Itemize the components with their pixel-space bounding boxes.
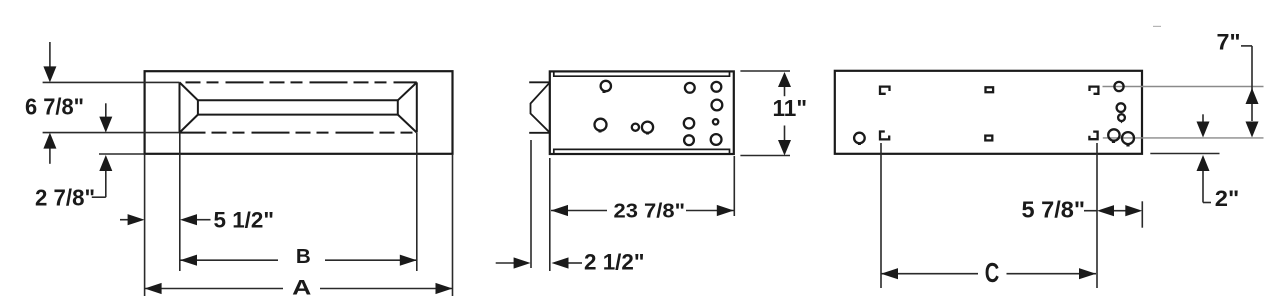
dim 5 7/8 double arrow xyxy=(1112,210,1127,212)
hole (left, lower) xyxy=(595,119,607,131)
extension line recess right edge down xyxy=(416,133,418,271)
recess inner band top xyxy=(198,99,398,101)
extension line plate bottom, left xyxy=(99,153,145,155)
bracket slot top-left (open bottom-right) xyxy=(880,87,890,94)
gray reference line through bottom keyholes xyxy=(1103,137,1264,139)
small circle right column xyxy=(1117,103,1126,112)
left bracket chevron outline xyxy=(531,83,550,133)
svg-text:B: B xyxy=(296,245,311,268)
svg-text:23 7/8": 23 7/8" xyxy=(614,199,686,222)
dim 6 7/8 top arrow xyxy=(49,42,51,164)
dim 23 7/8 right arrow xyxy=(717,205,734,216)
dim 2 7/8 bottom arrow xyxy=(99,155,112,171)
hole (top-left area) xyxy=(601,81,611,91)
dim 11in up arrow xyxy=(778,72,791,87)
slot bottom-middle xyxy=(985,136,992,141)
slot top-middle xyxy=(986,87,994,92)
bracket slot top-right (open bottom-left) xyxy=(1090,87,1099,94)
dim B right arrow xyxy=(400,255,417,266)
svg-text:7": 7" xyxy=(1217,29,1241,54)
mid view extension verticals xyxy=(531,140,734,271)
small hole right cluster r3c2 xyxy=(713,119,718,124)
svg-text:2": 2" xyxy=(1215,186,1240,211)
hole keyhole nub xyxy=(603,92,606,94)
right view extension verticals xyxy=(881,143,1142,288)
dim 7in down arrow xyxy=(1246,122,1259,138)
dim B line xyxy=(180,259,417,261)
extension line plate right edge down xyxy=(452,154,454,296)
gray reference line through top keyholes xyxy=(1103,86,1264,88)
recess top edge (dash-dot) xyxy=(180,81,417,83)
outer rectangle xyxy=(835,71,1142,154)
dim A line xyxy=(145,288,453,290)
bracket slot bottom-left (open top-right) xyxy=(880,132,889,140)
hole right cluster r1c2 xyxy=(712,82,722,92)
bracket slot bottom-right (open top-left) xyxy=(1089,132,1097,140)
hole right cluster r1c1 xyxy=(685,83,695,93)
recess inner band bottom xyxy=(198,114,398,116)
recess inner band right end xyxy=(397,100,399,114)
inner flange line bottom xyxy=(554,149,730,154)
dim 2 1/2 right arrow xyxy=(568,262,582,264)
hole right cluster r4c1 xyxy=(684,135,694,145)
dim C line xyxy=(881,273,1096,275)
recess inner band left end xyxy=(197,100,199,114)
dim 7in up arrow xyxy=(1246,88,1259,104)
dim 5 7/8 connector xyxy=(1084,210,1097,212)
hole (center) xyxy=(642,122,653,133)
recess bottom edge (dash-dot) xyxy=(180,132,417,134)
extension line bottom edge, right of view xyxy=(1150,153,1219,155)
hole right cluster r3c1 xyxy=(684,118,694,128)
small keyhole drop xyxy=(1118,114,1125,121)
dim 5 1/2 left arrow xyxy=(120,219,129,221)
dim A right arrow xyxy=(436,283,453,294)
dim 2in up arrow with elbow leader xyxy=(1203,171,1211,203)
bevel diagonal top-right xyxy=(398,82,417,100)
keyhole circle left xyxy=(854,133,865,144)
extension line recess left edge down xyxy=(179,133,181,271)
dim 5 1/2 right arrow xyxy=(197,219,211,221)
dim 2 1/2 left arrow xyxy=(496,262,514,264)
svg-text:6 7/8": 6 7/8" xyxy=(25,94,84,120)
dim C left arrow xyxy=(881,268,898,279)
dim 7in leader elbow xyxy=(1241,46,1252,121)
dim 11in down arrow xyxy=(778,140,791,156)
svg-text:A: A xyxy=(292,277,311,300)
svg-text:5 7/8": 5 7/8" xyxy=(1022,197,1086,223)
svg-text:2 7/8": 2 7/8" xyxy=(35,185,95,211)
dim A left arrow xyxy=(145,283,162,294)
keyhole nub xyxy=(858,144,861,146)
left bracket chevron top line xyxy=(529,81,550,83)
dim 23 7/8 left arrow xyxy=(551,205,568,216)
extension line plate left edge down xyxy=(144,154,146,296)
dim 23 7/8 line xyxy=(551,210,734,212)
top row circle right xyxy=(1114,82,1123,91)
svg-text:11": 11" xyxy=(773,95,808,121)
dim 2 7/8 top arrow xyxy=(92,103,106,197)
faint page artifact dash top right xyxy=(1153,25,1161,27)
inner flange line top xyxy=(554,71,730,76)
recess right edge xyxy=(416,82,418,132)
hole right cluster r2c2 xyxy=(712,100,723,111)
bevel diagonal bottom-right xyxy=(398,115,417,133)
svg-text:2 1/2": 2 1/2" xyxy=(584,250,645,275)
dim B left arrow xyxy=(180,255,197,266)
extension line recess top, left xyxy=(43,81,180,83)
big keyhole circle 2 xyxy=(1122,132,1134,144)
svg-text:5 1/2": 5 1/2" xyxy=(214,208,275,233)
recess left edge xyxy=(179,82,181,132)
dim 2in down arrow xyxy=(1202,114,1204,123)
bevel diagonal top-left xyxy=(180,82,198,100)
outer plate rectangle xyxy=(145,71,453,154)
dim 6 7/8 bottom arrow xyxy=(43,133,56,149)
holes of middle view xyxy=(595,81,723,145)
hole right cluster r4c2 xyxy=(711,134,722,145)
dim 11in extension lines xyxy=(740,71,790,156)
svg-text:C: C xyxy=(985,257,1000,288)
hole keyhole nub xyxy=(599,131,602,133)
dim C right arrow xyxy=(1079,268,1096,279)
big keyhole circle 1 xyxy=(1108,129,1119,140)
extension line recess bottom, left xyxy=(43,132,180,134)
hole keyhole nub xyxy=(646,133,649,135)
left bracket chevron bottom line xyxy=(529,132,550,134)
small hole (center) xyxy=(632,124,639,131)
outer rectangle xyxy=(550,71,734,154)
bevel diagonal bottom-left xyxy=(180,115,198,133)
